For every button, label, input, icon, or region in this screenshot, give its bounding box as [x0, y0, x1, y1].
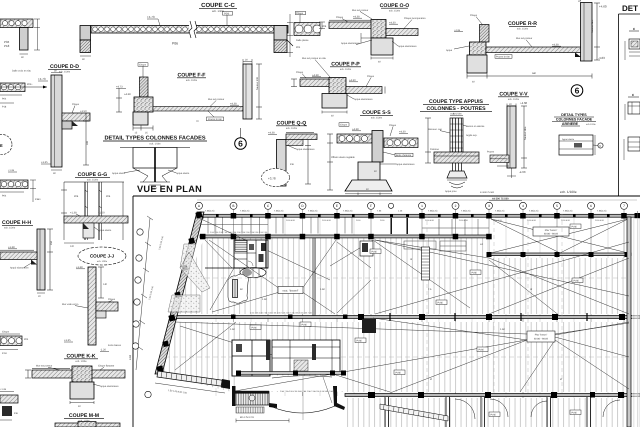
svg-text:Plta "beton": Plta "beton"	[545, 229, 558, 232]
coupe P-P drawing	[291, 57, 385, 118]
coupe V-V drawing	[487, 101, 528, 178]
upper band rooms (x422-489)	[404, 219, 489, 251]
left edge slab detail mid	[0, 169, 41, 202]
svg-text:P04: P04	[296, 46, 301, 49]
svg-text:Poutre: Poutre	[487, 151, 495, 154]
svg-text:sf: sf	[560, 378, 562, 381]
svg-text:P.06i 4.98: P.06i 4.98	[286, 219, 296, 222]
coupe S-S title	[360, 110, 393, 120]
svg-text:ech. 1/20e: ech. 1/20e	[97, 260, 108, 263]
door arc bottom entrance	[270, 375, 345, 420]
svg-text:hauteur libre: hauteur libre	[591, 19, 594, 33]
svg-text:60.86 - 98.60: 60.86 - 98.60	[534, 338, 549, 341]
svg-text:60.86 - 98.60: 60.86 - 98.60	[544, 233, 559, 236]
left dim bubbles	[132, 229, 151, 398]
svg-text:Appui elastomere: Appui elastomere	[396, 163, 415, 166]
svg-text:P06: P06	[106, 195, 111, 198]
funnel label upper bay	[278, 287, 303, 294]
coupe J-J drawing	[62, 266, 122, 352]
svg-text:ech. 1/10e: ech. 1/10e	[149, 143, 161, 146]
svg-text:P04: P04	[2, 195, 7, 198]
svg-text:P.06i: P.06i	[357, 340, 363, 343]
circled 6 left	[235, 128, 247, 149]
svg-text:Mur voile en bn: Mur voile en bn	[62, 303, 79, 306]
svg-text:Appui elastomere: Appui elastomere	[10, 267, 29, 270]
svg-text:+1.50: +1.50	[98, 212, 105, 215]
svg-text:7.56(a.m): 7.56(a.m)	[205, 210, 215, 213]
svg-text:COUPE J-J: COUPE J-J	[90, 254, 115, 259]
svg-text:+4.38: +4.38	[124, 93, 131, 96]
svg-text:3: 3	[488, 204, 490, 208]
svg-text:ech. 1/20e: ech. 1/20e	[517, 28, 529, 31]
svg-text:P.18: P.18	[2, 352, 7, 355]
svg-text:+1.50: +1.50	[80, 110, 87, 113]
bottom rooms walls	[385, 397, 591, 427]
top wall beam	[197, 213, 640, 234]
svg-text:Chape: Chape	[336, 16, 344, 19]
faint mid-bay lines	[165, 214, 629, 396]
coupe type appuis colonnes-poutres title	[420, 99, 492, 116]
F-F tall right column	[243, 64, 252, 119]
coupe S-S drawing	[327, 123, 418, 195]
core walls	[205, 267, 268, 269]
svg-text:Appui elasto: Appui elasto	[176, 172, 190, 175]
slant outside dim texts	[148, 235, 164, 300]
svg-text:1.50: 1.50	[262, 298, 267, 301]
svg-text:-1.20: -1.20	[100, 349, 106, 352]
svg-text:DET: DET	[622, 4, 638, 13]
svg-text:Dalle pleine: Dalle pleine	[296, 39, 309, 42]
F-F bottom dims	[133, 127, 153, 129]
svg-text:7.56(a.m): 7.56(a.m)	[529, 210, 539, 213]
small slab detail left of D-D	[0, 70, 47, 109]
coupe C-C slab with hollow cores	[91, 12, 288, 46]
svg-text:+4.30: +4.30	[349, 79, 356, 82]
R-R bottom dim chain	[467, 75, 592, 77]
long diagonals lower bay	[175, 318, 629, 393]
svg-text:2.56 7.56 2.56 7.56 2.56: 2.56 7.56 2.56 7.56 2.56 7.56 2.56 7.56 …	[280, 390, 334, 393]
detail arriere drawing	[559, 135, 603, 155]
stair treads in cluster	[235, 241, 247, 252]
svg-text:DETAIL TYPES COLONNES FACADES: DETAIL TYPES COLONNES FACADES	[104, 136, 205, 142]
svg-text:Poutre br 6m: Poutre br 6m	[208, 118, 222, 121]
coupe C-C title	[199, 2, 237, 13]
svg-text:2.56 7.56 2.56 7.56 2.: 2.56 7.56 2.56 7.56 2.56 7.56 2.56 7.56 …	[210, 231, 268, 234]
bottom rooms door arcs	[455, 399, 620, 419]
R-R tall column	[581, 3, 593, 62]
svg-text:+4.73: +4.73	[147, 15, 155, 19]
beam D (y317, full width)	[171, 312, 640, 322]
VUE EN PLAN title	[137, 184, 577, 194]
svg-text:4: 4	[522, 204, 524, 208]
coupe G-G title	[75, 172, 110, 182]
svg-text:E: E	[336, 204, 338, 208]
svg-text:P04+: P04+	[27, 83, 33, 86]
svg-text:P18: P18	[4, 44, 10, 48]
svg-text:ech. 1/20e: ech. 1/20e	[59, 71, 71, 74]
coupe M-M title	[64, 413, 104, 423]
svg-text:7: 7	[623, 204, 625, 208]
coupe H-H drawing	[0, 229, 53, 298]
slab band crossing column	[434, 152, 479, 163]
label box plénum upper right	[533, 227, 569, 236]
svg-text:7.56(a.m): 7.56(a.m)	[343, 210, 353, 213]
svg-text:ARRIERE: ARRIERE	[562, 122, 579, 126]
coupe type appuis drawing	[425, 113, 485, 194]
svg-text:P06: P06	[322, 25, 327, 28]
corner slab detail top-left	[0, 19, 40, 59]
svg-text:Appui elastomere: Appui elastomere	[398, 45, 417, 48]
label box lower center	[527, 331, 555, 342]
svg-text:7.56(a.m): 7.56(a.m)	[308, 210, 318, 213]
svg-text:hauteur 300: hauteur 300	[256, 77, 259, 90]
coupe J-J cloud title	[78, 247, 126, 265]
svg-text:+4.30: +4.30	[399, 131, 406, 134]
svg-text:4.84: 4.84	[129, 354, 132, 360]
svg-text:sf: sf	[430, 378, 432, 381]
funnel diagonals upper bay	[209, 240, 371, 314]
svg-text:+4.60: +4.60	[599, 5, 607, 9]
svg-text:120: 120	[70, 245, 75, 248]
svg-text:P.06i 4.98: P.06i 4.98	[561, 219, 571, 222]
svg-text:+3.78: +3.78	[268, 177, 276, 181]
svg-text:P.06i: P.06i	[491, 414, 497, 417]
svg-text:ech. 1/20e: ech. 1/20e	[186, 79, 198, 82]
svg-text:ech. 1/20e: ech. 1/20e	[340, 68, 352, 71]
svg-text:Mur ext porteur: Mur ext porteur	[36, 365, 52, 368]
svg-text:ech. 1/20e: ech. 1/20e	[508, 98, 520, 101]
svg-text:P.06i: P.06i	[396, 372, 402, 375]
coupe R-R title	[508, 21, 537, 31]
joist texture lower bay	[159, 322, 629, 392]
shaft at column 370	[360, 241, 373, 256]
svg-text:Forte liaison: Forte liaison	[108, 344, 122, 347]
left edge slab detail low	[0, 331, 29, 356]
bottom-left stair block	[232, 386, 289, 423]
svg-text:P.06i: P.06i	[356, 219, 361, 222]
left dim vertical text	[129, 354, 132, 360]
grid bubbles row	[196, 202, 628, 209]
svg-text:Chape: Chape	[389, 124, 397, 127]
footing	[447, 171, 467, 178]
svg-text:P18: P18	[2, 106, 7, 109]
plan top dim chain line	[197, 199, 637, 201]
svg-text:P.06i: P.06i	[574, 280, 580, 283]
svg-text:Chape incorporation: Chape incorporation	[404, 17, 426, 20]
svg-text:B: B	[232, 204, 234, 208]
walkway ramp band bottom-left	[155, 371, 230, 395]
coupe V-V title	[498, 92, 529, 102]
svg-text:Appui elastomere: Appui elastomere	[100, 385, 119, 388]
coupe Q-Q title	[276, 121, 307, 131]
svg-text:7.56(a.m): 7.56(a.m)	[274, 210, 284, 213]
Q-Q cloud	[262, 169, 290, 187]
svg-text:44 500 75 500: 44 500 75 500	[480, 191, 495, 194]
svg-text:P.06i 4.98: P.06i 4.98	[527, 219, 537, 222]
svg-text:ech. 1/20e: ech. 1/20e	[4, 227, 16, 230]
svg-text:P04: P04	[2, 98, 7, 101]
svg-text:+1.35: +1.35	[64, 339, 71, 342]
svg-text:+1.35: +1.35	[0, 388, 7, 391]
svg-text:P.06i: P.06i	[572, 226, 578, 229]
coupe Q-Q drawing	[262, 132, 318, 187]
svg-text:Chape flottante: Chape flottante	[98, 365, 115, 368]
svg-text:P.06i 4.98: P.06i 4.98	[459, 219, 469, 222]
svg-text:Mur ext porteur en situ: Mur ext porteur en situ	[302, 57, 327, 60]
slab band crossing G-G posts	[64, 212, 128, 249]
svg-text:+1.35: +1.35	[41, 161, 48, 164]
svg-text:Barres en attente: Barres en attente	[466, 125, 485, 128]
coupe C-C right column	[274, 26, 293, 53]
coupe O-O title	[380, 3, 410, 13]
left edge small detail bottom	[0, 388, 18, 420]
svg-text:-4.63: -4.63	[519, 170, 526, 174]
svg-text:ech. 1/20e: ech. 1/20e	[286, 127, 298, 130]
coupe O-O drawing	[319, 9, 426, 64]
cloud-marked wall element left	[228, 274, 249, 303]
svg-text:2: 2	[455, 204, 457, 208]
svg-text:P.06i: P.06i	[472, 272, 478, 275]
svg-text:COLONNES FACADE: COLONNES FACADE	[556, 118, 593, 122]
entrance room white	[237, 376, 345, 392]
svg-text:Appui elasto: Appui elasto	[112, 172, 126, 175]
detail types colonnes facades title	[103, 136, 207, 146]
svg-text:Chape: Chape	[72, 103, 80, 106]
intermediate grid ticks	[216, 214, 608, 427]
partition wall x313	[313, 238, 315, 316]
svg-text:Chape: Chape	[2, 331, 10, 334]
svg-text:80.4.75 N 78: 80.4.75 N 78	[240, 416, 254, 419]
svg-text:Appui elasto: Appui elasto	[562, 138, 575, 141]
detail types colonnes facades drawing	[112, 148, 190, 191]
bottom ramp treads right	[380, 404, 448, 421]
joist texture bay 1 (upper big bay)	[174, 236, 489, 314]
svg-text:1.50: 1.50	[500, 328, 505, 331]
svg-text:DETAIL TYPES: DETAIL TYPES	[561, 113, 587, 117]
coupe K-K title	[64, 354, 98, 364]
svg-text:ech. 1/20e: ech. 1/20e	[389, 10, 401, 13]
coupe M-M drawing (clipped at bottom)	[55, 422, 120, 427]
mid shaft dark left	[362, 319, 376, 333]
svg-text:+1.38: +1.38	[76, 266, 83, 269]
grid bubble letters	[198, 204, 625, 208]
coupe D-D title	[48, 64, 81, 74]
joist texture bay right of core	[489, 258, 629, 314]
svg-text:580: 580	[532, 72, 537, 75]
circled 6 right	[571, 85, 583, 97]
vertical grid lines	[234, 209, 625, 427]
coupe C-C left column	[80, 26, 91, 62]
svg-text:1.50: 1.50	[320, 288, 325, 291]
svg-text:exut. "desenf": exut. "desenf"	[283, 290, 299, 293]
svg-text:+4.73: +4.73	[116, 86, 123, 89]
DET sheet frame right	[619, 4, 640, 196]
svg-text:7.56(a.m): 7.56(a.m)	[597, 210, 607, 213]
svg-text:+4.73: +4.73	[38, 77, 46, 81]
svg-text:6: 6	[590, 204, 592, 208]
svg-text:P.06i 4.98: P.06i 4.98	[425, 219, 435, 222]
long diagonals upper bay	[199, 218, 629, 316]
svg-text:Appui prov.: Appui prov.	[445, 190, 457, 193]
svg-text:nf: nf	[530, 288, 532, 291]
svg-text:ech. 1/100e: ech. 1/100e	[560, 190, 577, 194]
svg-text:Mur ext.porteur: Mur ext.porteur	[516, 37, 532, 40]
svg-text:2.56 7.56 2.56 7.56 2.: 2.56 7.56 2.56 7.56 2.56 7.56 2.56 7.56 …	[250, 312, 313, 315]
svg-text:Chape: Chape	[296, 71, 304, 74]
detail types colonnes facade arriere title	[552, 113, 596, 126]
svg-text:Argile exp.: Argile exp.	[466, 134, 478, 137]
svg-text:E: E	[0, 143, 3, 148]
coupe D-D column	[38, 70, 90, 176]
svg-text:P.06i: P.06i	[572, 412, 578, 415]
center rooms block (x232-270)	[232, 340, 270, 376]
svg-text:P.B: P.B	[14, 412, 18, 415]
slanted dimension line	[136, 216, 153, 370]
coupe P-P title	[330, 62, 361, 72]
svg-text:44 500 75 500: 44 500 75 500	[492, 198, 509, 201]
svg-text:hauteur libre: hauteur libre	[524, 126, 527, 140]
svg-text:140: 140	[103, 283, 108, 286]
svg-text:7.56(a.m): 7.56(a.m)	[461, 210, 471, 213]
svg-text:P06: P06	[74, 195, 79, 198]
slanted facade wall band	[155, 211, 204, 374]
coupe C-C right slab cross-section with cores	[287, 11, 327, 57]
joist texture bottom strip	[346, 398, 631, 427]
svg-text:P.06i: P.06i	[438, 302, 444, 305]
svg-text:COUPE C-C: COUPE C-C	[201, 2, 235, 9]
svg-text:7.56(a.m): 7.56(a.m)	[240, 210, 250, 213]
R-R slab strip	[486, 47, 581, 53]
svg-text:-4.63: -4.63	[598, 56, 605, 60]
svg-text:F: F	[370, 204, 372, 208]
svg-text:7.56(a.m): 7.56(a.m)	[428, 210, 438, 213]
svg-text:Plta "beton": Plta "beton"	[535, 334, 548, 337]
svg-text:ech 1/10e: ech 1/10e	[586, 123, 596, 126]
svg-text:P.B: P.B	[290, 163, 294, 166]
svg-text:Offsets elasto reglable: Offsets elasto reglable	[331, 156, 355, 159]
svg-text:+4.38: +4.38	[352, 128, 359, 131]
svg-text:Mur ext porteur: Mur ext porteur	[208, 98, 224, 101]
svg-text:250: 250	[50, 240, 53, 245]
svg-text:P.06i: P.06i	[380, 219, 385, 222]
svg-text:+1.38: +1.38	[8, 246, 15, 249]
svg-text:ech. 1/20e: ech. 1/20e	[87, 179, 99, 182]
svg-text:Dalle croix en situ: Dalle croix en situ	[12, 70, 32, 73]
svg-text:P.06i: P.06i	[372, 251, 378, 254]
slab break lines	[189, 22, 196, 36]
svg-text:Appui elastomere: Appui elastomere	[354, 98, 373, 101]
svg-text:Appui elasto: Appui elasto	[98, 229, 112, 232]
svg-text:+4.38: +4.38	[268, 132, 275, 135]
svg-text:+4.60: +4.60	[520, 101, 528, 105]
svg-text:+4.38: +4.38	[312, 74, 319, 77]
svg-text:5: 5	[556, 204, 558, 208]
plan sheet frame	[133, 196, 640, 427]
svg-text:1.50: 1.50	[230, 328, 235, 331]
F-F long slab	[153, 107, 243, 112]
svg-text:7.56(a.m): 7.56(a.m)	[563, 210, 573, 213]
svg-text:P.Brs: P.Brs	[35, 198, 41, 201]
upper-right X bay	[491, 219, 628, 253]
ladder element right of column 421	[422, 247, 430, 280]
coupe K-K drawing	[25, 365, 125, 409]
beam B (y236, x200-489)	[200, 231, 492, 240]
svg-text:Appui elastomere: Appui elastomere	[296, 148, 315, 151]
cloud marker left edge	[0, 135, 12, 155]
svg-text:P.06i: P.06i	[479, 349, 485, 352]
svg-text:Appui: Appui	[446, 49, 453, 52]
svg-text:300: 300	[86, 140, 89, 145]
dotted terrace strips along slant	[168, 244, 210, 312]
svg-text:ech. 1/20e: ech. 1/20e	[371, 117, 383, 120]
svg-text:P06: P06	[172, 42, 178, 46]
svg-text:Colonne: Colonne	[430, 148, 440, 151]
svg-text:7.56(a.m): 7.56(a.m)	[495, 210, 505, 213]
center rooms block (x272-340)	[272, 340, 340, 373]
coupe F-F title	[177, 73, 206, 83]
svg-text:P.06i: P.06i	[252, 327, 258, 330]
core room cluster	[234, 240, 268, 268]
beam over door row (y372)	[236, 371, 346, 376]
upper band small rooms (left)	[199, 218, 352, 234]
beam E (y395, x345-640)	[280, 390, 640, 398]
svg-text:P.06i 4.98: P.06i 4.98	[595, 219, 605, 222]
small P labels scattered	[230, 224, 583, 417]
R-R right dims	[596, 3, 598, 60]
svg-text:P.06i 4.98: P.06i 4.98	[322, 219, 332, 222]
plan top dim texts	[205, 198, 607, 213]
beam C (y254, x489-631)	[487, 252, 632, 257]
oval basin below cluster	[240, 268, 266, 278]
svg-text:+1.35: +1.35	[8, 169, 15, 172]
svg-text:Appui elastomere: Appui elastomere	[341, 42, 360, 45]
svg-text:1: 1	[421, 204, 423, 208]
coupe F-F drawing	[116, 59, 262, 135]
svg-text:Chape: Chape	[470, 14, 478, 17]
small level labels row under top beam	[286, 219, 605, 222]
right edge wall	[627, 211, 640, 427]
svg-text:P.06i: P.06i	[302, 324, 308, 327]
coupe H-H title	[2, 220, 33, 230]
svg-text:6: 6	[575, 86, 580, 96]
svg-text:6: 6	[238, 139, 243, 149]
coupe G-G drawing: posts elevation	[61, 182, 124, 240]
svg-text:VUE EN PLAN: VUE EN PLAN	[137, 184, 202, 194]
svg-text:nf: nf	[410, 258, 412, 261]
coupe R-R drawing	[446, 0, 607, 84]
svg-text:ech. 1/20e: ech. 1/20e	[75, 360, 87, 363]
svg-text:P04: P04	[24, 338, 29, 341]
svg-text:Boite d'attente: Boite d'attente	[396, 154, 412, 157]
R-R pier	[467, 55, 487, 73]
